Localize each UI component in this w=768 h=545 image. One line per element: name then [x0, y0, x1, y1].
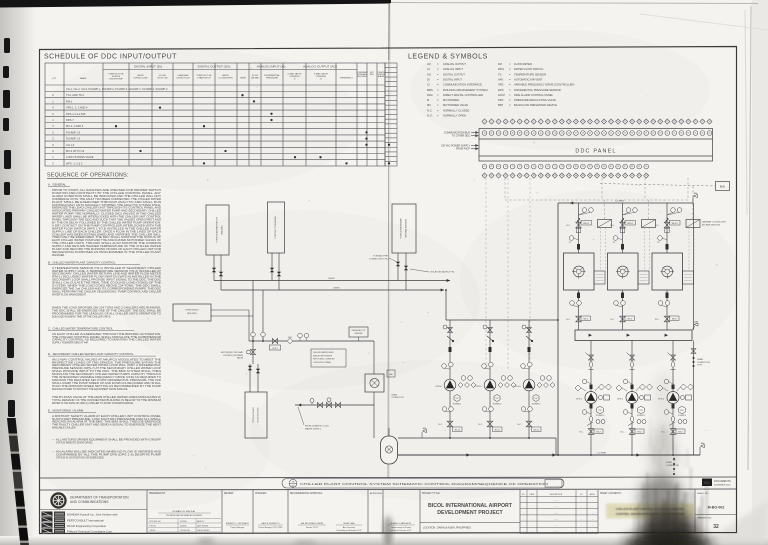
svg-text:Director, DOTC: Director, DOTC — [306, 526, 319, 529]
top black scan bar — [0, 0, 391, 8]
svg-text:74: 74 — [533, 166, 535, 168]
svg-text:65: 65 — [702, 133, 704, 135]
section A text — [52, 189, 162, 257]
section D text — [52, 358, 162, 391]
chiller unit CH-2 — [608, 253, 639, 290]
VFD relay box — [642, 220, 656, 228]
BFP backflow preventer — [317, 402, 322, 407]
svg-text:97: 97 — [526, 175, 528, 177]
secondary pump line SCHWP-2 — [489, 320, 491, 438]
TDP gauge — [494, 395, 500, 402]
pump PCHWP-2 — [626, 392, 638, 404]
valve — [589, 355, 594, 360]
svg-text:Asst. Secretary: Asst. Secretary — [343, 526, 355, 529]
svg-text:PRC REG. NO.: PRC REG. NO. — [150, 521, 162, 523]
svg-text:QTY: QTY — [52, 78, 57, 80]
primary pump line PCHWP-3 — [672, 341, 674, 456]
return manifold — [575, 330, 692, 341]
binding hole — [7, 370, 13, 384]
svg-text:DEVELOPMENT PROJECT: DEVELOPMENT PROJECT — [437, 510, 503, 516]
header elbow to secondary loop — [445, 290, 447, 320]
svg-text:APPR.: APPR. — [590, 493, 596, 496]
valve — [630, 355, 635, 360]
drain on right riser — [693, 341, 695, 456]
svg-text:DATE ISSUED: DATE ISSUED — [197, 524, 209, 527]
BMS box — [716, 182, 730, 191]
svg-text:90: 90 — [645, 166, 647, 168]
AAV on header end — [692, 197, 694, 203]
flex stub — [672, 385, 675, 390]
TS tag — [569, 236, 574, 241]
chiller unit CH-3 — [652, 253, 683, 290]
svg-text:73: 73 — [526, 166, 528, 168]
secondary pump line SCHWP-1 — [449, 320, 451, 438]
secondary pump line SCHWP-3 — [528, 320, 530, 438]
pipe trench note — [311, 349, 346, 367]
building box POWER HOUSE — [245, 392, 267, 438]
chiller control panel — [638, 271, 649, 284]
chiller unit CH-1 — [564, 253, 595, 290]
MV valve MV-8 — [629, 429, 635, 435]
svg-text:ALAMEO S. BAZILAN JR.: ALAMEO S. BAZILAN JR. — [391, 522, 412, 525]
MV valve MV-6 — [664, 316, 670, 322]
svg-text:BICOL INTERNATIONAL AIRPORT: BICOL INTERNATIONAL AIRPORT — [428, 503, 513, 509]
expansion tank — [381, 436, 398, 464]
svg-text:CONNECTION: CONNECTION — [697, 362, 710, 364]
binding hole — [3, 66, 9, 78]
svg-text:DPS-2: DPS-2 — [617, 399, 624, 401]
svg-text:MA. FELICIDAD S. ASUM: MA. FELICIDAD S. ASUM — [301, 522, 323, 525]
AAV manifold end — [692, 326, 695, 330]
building box ATCT — [173, 304, 211, 321]
svg-text:SHEET CONTENTS:: SHEET CONTENTS: — [600, 493, 622, 495]
svg-text:91: 91 — [484, 175, 486, 177]
svg-text:MANAGER.: MANAGER. — [52, 254, 65, 257]
chiller return pipe — [578, 290, 580, 330]
MV valve MV-5 — [620, 316, 626, 322]
AAV on return — [421, 432, 423, 438]
TDP gauge — [597, 406, 604, 414]
svg-text:78: 78 — [561, 166, 563, 168]
CHWS supply header — [558, 202, 693, 204]
small smudge bottom center — [197, 538, 215, 544]
DDC I/O tag row bottom circles — [482, 164, 648, 169]
svg-text:71: 71 — [512, 166, 514, 168]
svg-text:70: 70 — [505, 166, 507, 168]
binding hole — [6, 307, 12, 321]
svg-text:SUPPLY TEMPERATURE AT 44F.: SUPPLY TEMPERATURE AT 44F. — [52, 342, 89, 345]
VFD relay box — [686, 220, 700, 228]
strainer — [447, 336, 453, 341]
flex connector — [577, 218, 580, 222]
section C text — [52, 333, 161, 345]
svg-text:61: 61 — [673, 133, 675, 135]
building box PASSENGER TERMINAL — [392, 204, 416, 253]
strainer — [526, 336, 532, 341]
svg-text:100: 100 — [546, 175, 549, 177]
primary pump line PCHWP-1 — [590, 341, 592, 456]
tag diamonds — [616, 385, 622, 391]
flex stub — [631, 385, 634, 390]
binding hole — [4, 182, 10, 195]
paper top edge right half — [391, 3, 758, 4]
flex connector — [666, 218, 669, 222]
binding band lower — [7, 418, 17, 434]
svg-text:112: 112 — [631, 175, 634, 177]
svg-text:104: 104 — [575, 175, 578, 177]
svg-text:103: 103 — [568, 175, 571, 177]
svg-text:GIVEN CHEE: GIVEN CHEE — [343, 523, 355, 525]
loop risers — [252, 281, 254, 342]
binding hole — [5, 212, 12, 232]
svg-text:- - -: - - - — [554, 512, 557, 514]
svg-text:85: 85 — [610, 166, 612, 168]
secondary return line — [398, 437, 556, 439]
MV valve MV-12 — [526, 421, 532, 427]
specks — [207, 279, 210, 282]
building box ADMIN — [206, 205, 229, 255]
svg-text:108: 108 — [603, 175, 606, 177]
DDC I/O tag row bottom diamonds — [482, 173, 649, 178]
section E text — [52, 415, 162, 430]
svg-text:75: 75 — [540, 166, 542, 168]
TS tag — [613, 236, 618, 241]
N.C. valve WFS-3 — [664, 222, 670, 228]
svg-text:- - -: - - - — [554, 500, 557, 502]
binding hole — [4, 150, 11, 169]
section B text — [52, 267, 162, 297]
flex connector — [621, 218, 624, 222]
svg-text:- - -: - - - — [554, 525, 557, 527]
svg-text:- - -: - - - — [554, 519, 557, 521]
CHWS riser left — [557, 203, 559, 455]
flex stub — [489, 347, 492, 352]
svg-text:33: 33 — [709, 121, 711, 123]
svg-text:93: 93 — [498, 175, 500, 177]
svg-text:RALE B. MIGUELITO: RALE B. MIGUELITO — [261, 522, 280, 525]
svg-text:DCCD Engineering Corporation: DCCD Engineering Corporation — [67, 524, 107, 528]
svg-text:62: 62 — [680, 133, 682, 135]
TDP gauge — [679, 406, 686, 414]
flex stub — [577, 244, 580, 250]
svg-text:77: 77 — [554, 166, 556, 168]
svg-text:105: 105 — [582, 175, 585, 177]
svg-text:SEQUENCING PURPOSES AS PROGRAM: SEQUENCING PURPOSES AS PROGRAMMED IN THE… — [52, 251, 162, 254]
chiller control panel — [683, 271, 694, 284]
tag diamonds — [575, 385, 581, 391]
svg-text:32: 32 — [702, 121, 704, 123]
pump SCHWP-2 — [484, 379, 496, 391]
svg-text:DRAIN: DRAIN — [697, 358, 704, 361]
table outer box — [45, 63, 385, 166]
chemical pot feeder — [349, 327, 368, 337]
riser right — [693, 203, 695, 330]
check valve — [671, 416, 675, 421]
svg-text:D. SECONDARY CHILLED WATER LO: D. SECONDARY CHILLED WATER LOOP CAPACITY… — [48, 352, 134, 356]
svg-text:FROM FACP: FROM FACP — [456, 148, 470, 151]
MV valve MV-7 — [588, 429, 594, 435]
svg-text:92: 92 — [491, 175, 493, 177]
consultant logos — [42, 512, 53, 517]
TDP gauge — [454, 395, 460, 402]
valve — [272, 338, 277, 343]
svg-text:ALARM: ALARM — [378, 75, 385, 78]
svg-text:BOHEWA Konsult Inc. Joint Vent: BOHEWA Konsult Inc. Joint Venture with — [67, 513, 118, 517]
svg-text:69: 69 — [498, 166, 500, 168]
svg-text:ROMANO R. MISOLAL: ROMANO R. MISOLAL — [173, 510, 197, 513]
svg-text:BMS: BMS — [720, 186, 726, 189]
caption tag — [289, 479, 297, 487]
svg-text:98: 98 — [533, 175, 535, 177]
primary pump line PCHWP-2 — [631, 341, 633, 456]
svg-text:102: 102 — [561, 175, 564, 177]
svg-text:B. CHILLED WATER PLANT CAPACI: B. CHILLED WATER PLANT CAPACITY CONTROL — [48, 261, 116, 265]
DPS-7 sensor — [270, 345, 281, 350]
FM-1 flow meter — [287, 338, 293, 344]
svg-text:REQUIRED: REQUIRED — [357, 76, 368, 78]
chiller return pipe — [666, 290, 668, 330]
binding hole — [8, 400, 15, 417]
motorized 2-way bypass valve — [252, 341, 254, 364]
chiller feed pipe CH-1 — [578, 203, 580, 253]
building box OTF — [268, 202, 285, 253]
flex stub — [449, 347, 452, 352]
svg-text:67: 67 — [484, 166, 486, 168]
svg-text:DATE: DATE — [530, 493, 535, 496]
svg-text:82: 82 — [589, 166, 591, 168]
flex stub — [590, 385, 593, 390]
VFD relay box — [598, 220, 612, 228]
separator line above title block — [39, 477, 737, 478]
svg-text:ERNESTO L. CESTINA JR.: ERNESTO L. CESTINA JR. — [226, 522, 250, 525]
TS tags — [298, 333, 303, 338]
svg-text:M-BO-002: M-BO-002 — [708, 506, 725, 510]
svg-text:110: 110 — [617, 175, 620, 177]
svg-text:PCHWP-2: PCHWP-2 — [637, 415, 645, 417]
AAV at CHWR end — [699, 447, 701, 455]
tag diamonds — [657, 385, 663, 391]
svg-text:- - -: - - - — [554, 506, 557, 508]
svg-text:NOVEMBER 2014: NOVEMBER 2014 — [714, 485, 731, 487]
svg-text:PCHWP-3: PCHWP-3 — [678, 415, 686, 417]
svg-text:MV-8: MV-8 — [637, 431, 641, 433]
svg-text:CHECKED:: CHECKED: — [255, 493, 267, 495]
svg-text:30: 30 — [688, 121, 690, 123]
svg-text:101: 101 — [553, 175, 556, 177]
svg-text:SHEET NO.:: SHEET NO.: — [697, 493, 710, 495]
svg-text:DOCUMENTS: DOCUMENTS — [714, 479, 731, 483]
svg-text:66: 66 — [709, 133, 711, 135]
left grey strip — [0, 0, 36, 545]
page seam — [388, 3, 389, 478]
flex stub — [528, 347, 531, 352]
heat exchanger — [365, 374, 384, 392]
svg-text:96: 96 — [519, 175, 521, 177]
MV valve MV-11 — [487, 421, 493, 427]
svg-text:95: 95 — [512, 175, 514, 177]
svg-text:PERTCONSULT International: PERTCONSULT International — [67, 518, 104, 522]
DDC I/O tag row top circles — [482, 131, 712, 136]
BID DOCUMENTS stamp — [702, 479, 712, 487]
ADMIN pipes — [213, 255, 215, 281]
svg-text:94: 94 — [505, 175, 507, 177]
MV valve MV-9 — [670, 429, 676, 435]
chiller feed pipe CH-2 — [622, 203, 624, 253]
svg-text:NO.: NO. — [522, 494, 526, 496]
svg-text:ANALOG OUTPUT (AO): ANALOG OUTPUT (AO) — [303, 65, 337, 69]
gate valve — [335, 402, 340, 407]
CHWS header (buildings) — [221, 289, 444, 291]
svg-text:99: 99 — [540, 175, 542, 177]
svg-text:80: 80 — [575, 166, 577, 168]
DDC panel — [479, 129, 713, 162]
PASS pipes — [397, 253, 399, 281]
svg-text:88: 88 — [631, 166, 633, 168]
BFP assembly riser — [373, 341, 375, 374]
DDC I/O tag row top diamonds — [482, 119, 712, 124]
svg-text:60: 60 — [666, 133, 668, 135]
svg-text:111: 111 — [624, 175, 627, 177]
svg-text:72: 72 — [519, 166, 521, 168]
svg-text:64: 64 — [695, 133, 697, 135]
AAV near HX — [387, 370, 395, 377]
check valve — [630, 362, 634, 367]
svg-text:- - -: - - - — [554, 531, 557, 533]
svg-text:A. GENERAL: A. GENERAL — [48, 183, 67, 187]
bottom edge — [0, 536, 768, 545]
CHWR return header — [398, 454, 700, 456]
check valve — [589, 416, 593, 421]
svg-text:114: 114 — [645, 175, 648, 177]
OTF pipes — [271, 253, 273, 281]
TDP gauge — [638, 406, 645, 414]
power house pipes — [249, 364, 251, 392]
svg-text:76: 76 — [547, 166, 549, 168]
chiller return pipe — [622, 290, 624, 330]
caption stadium — [282, 479, 564, 489]
drain connection — [673, 455, 675, 474]
chiller control panel — [594, 271, 605, 284]
svg-text:Project Manager: Project Manager — [231, 526, 245, 529]
svg-text:123-456-789: 123-456-789 — [180, 530, 190, 532]
svg-text:89: 89 — [638, 166, 640, 168]
binding hole — [5, 245, 11, 259]
check valve — [589, 362, 593, 367]
svg-text:RPM/HERTZ: RPM/HERTZ — [340, 78, 353, 80]
svg-text:107: 107 — [596, 175, 599, 177]
pump PCHWP-1 — [585, 392, 597, 404]
comm bus dashed to BMS — [600, 184, 716, 187]
DOTC logo — [50, 492, 66, 508]
chiller feed pipe CH-3 — [666, 203, 668, 253]
make-up water line — [295, 404, 374, 406]
TS tag — [658, 236, 663, 241]
svg-text:(TYP): (TYP) — [697, 365, 702, 367]
svg-text:C. CHILLED WATER TEMPERATURE: C. CHILLED WATER TEMPERATURE CONTROL — [48, 327, 113, 331]
svg-text:PTR NO.: PTR NO. — [150, 525, 157, 527]
svg-text:63: 63 — [688, 133, 690, 135]
scan smudge bottom right — [624, 370, 712, 545]
flex stub — [621, 244, 624, 250]
strainer — [487, 336, 493, 341]
scan mottle — [40, 50, 360, 190]
svg-text:68: 68 — [491, 166, 493, 168]
pump SCHWP-3 — [523, 379, 535, 391]
svg-text:VALIDITY: VALIDITY — [197, 520, 205, 523]
TDP gauge — [533, 395, 539, 402]
N.C. valve WFS-1 — [576, 222, 582, 228]
svg-text:DESCRIPTION: DESCRIPTION — [550, 494, 563, 496]
DPS-7 flow row — [249, 340, 374, 342]
svg-text:106: 106 — [589, 175, 592, 177]
binding hole — [4, 38, 10, 53]
title block frame — [39, 489, 737, 490]
svg-text:32: 32 — [713, 524, 719, 530]
binding hole — [6, 274, 13, 294]
check valve — [630, 416, 634, 421]
svg-text:4455667: 4455667 — [180, 525, 187, 527]
junction dots — [449, 437, 451, 439]
remarks mini column — [385, 63, 397, 166]
pump SCHWP-1 — [444, 379, 456, 391]
svg-text:113: 113 — [638, 175, 641, 177]
comm riser to gateway — [692, 186, 694, 219]
svg-text:84: 84 — [603, 166, 605, 168]
revisions table — [520, 490, 598, 534]
svg-text:and Special Concerns, DOTC: and Special Concerns, DOTC — [391, 530, 413, 532]
PRV — [326, 402, 331, 407]
svg-text:MV-9: MV-9 — [678, 431, 682, 433]
crease top-right — [640, 14, 768, 30]
svg-text:Philipp's Technical Consultant: Philipp's Technical Consultants Corp. — [67, 530, 113, 534]
right page edge — [752, 0, 768, 545]
MV valve MV-4 — [576, 316, 582, 322]
flex stub — [666, 244, 669, 250]
svg-text:RECOMMENDING APPROVAL:: RECOMMENDING APPROVAL: — [290, 492, 323, 495]
CHWR header (buildings) — [214, 280, 450, 282]
svg-text:N.C.: N.C. — [621, 432, 625, 434]
MV valve MV-10 — [447, 421, 453, 427]
svg-text:109: 109 — [610, 175, 613, 177]
svg-text:TIN NO.: TIN NO. — [150, 530, 157, 532]
svg-text:MANUFACTURER TO PROTECT THE EQ: MANUFACTURER TO PROTECT THE EQUIPMENT FR… — [52, 388, 128, 391]
svg-text:81: 81 — [582, 166, 584, 168]
svg-text:87: 87 — [624, 166, 626, 168]
svg-text:31: 31 — [695, 121, 697, 123]
svg-text:WATER FLOW MANAGEMENT.: WATER FLOW MANAGEMENT. — [52, 293, 87, 296]
DDC panel feed labels — [441, 132, 470, 151]
pump PCHWP-3 — [667, 392, 679, 404]
svg-text:EQUALIZE RUNNING TIME OF THE C: EQUALIZE RUNNING TIME OF THE CHILLER UNI… — [52, 315, 111, 318]
svg-text:Project Manager, DOTC-PMO: Project Manager, DOTC-PMO — [259, 526, 283, 529]
svg-text:REQ.: REQ. — [370, 74, 375, 76]
binding hole — [3, 118, 9, 131]
valve — [671, 355, 676, 360]
svg-text:DDC PANEL: DDC PANEL — [575, 149, 616, 155]
svg-text:0012345: 0012345 — [180, 521, 187, 523]
binding hole — [3, 90, 10, 108]
svg-text:PROFESSIONAL MECHANICAL ENGINE: PROFESSIONAL MECHANICAL ENGINEER — [166, 514, 203, 517]
binding hole — [7, 338, 14, 358]
DDC comm drops — [601, 178, 603, 200]
svg-text:PLACE ISSUED: PLACE ISSUED — [197, 529, 210, 532]
svg-text:LOCATION : DARAGA ALBAY, PHIL: LOCATION : DARAGA ALBAY, PHILIPPINES — [423, 527, 471, 530]
svg-text:79: 79 — [568, 166, 570, 168]
check valve — [671, 362, 675, 367]
svg-text:86: 86 — [617, 166, 619, 168]
svg-text:83: 83 — [596, 166, 598, 168]
N.C. valve WFS-2 — [620, 222, 626, 228]
